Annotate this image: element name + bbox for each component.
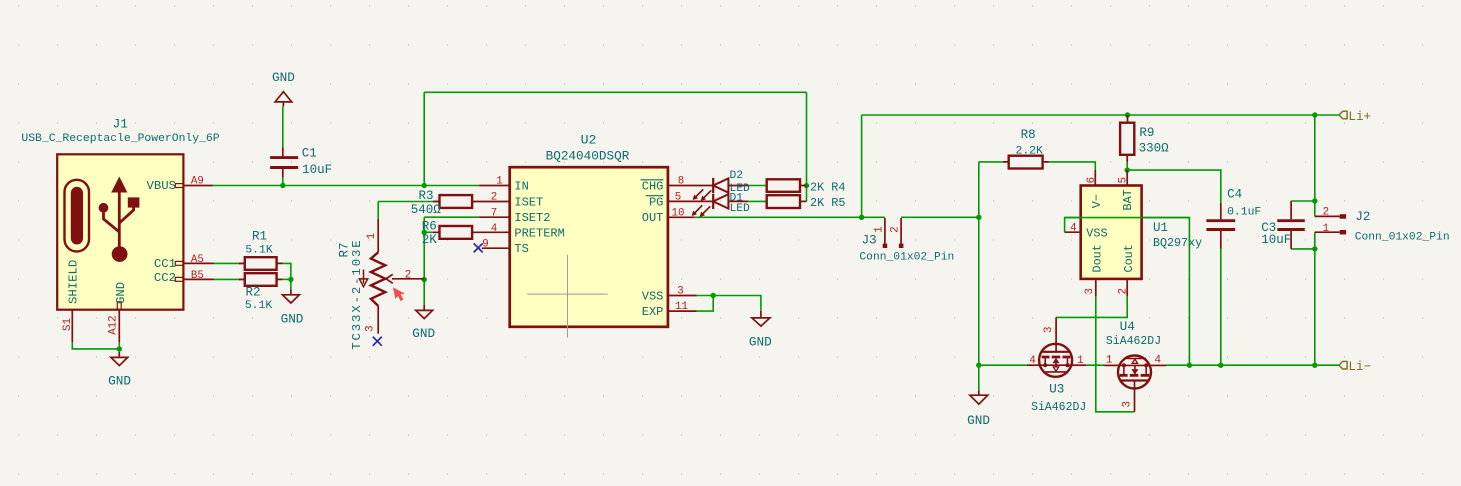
- connector J2 Conn_01x02_Pin: [1315, 207, 1450, 244]
- wire C1 upper branch to GND: [282, 107, 284, 148]
- svg-text:J1: J1: [113, 117, 128, 132]
- svg-text:CC1: CC1: [154, 257, 176, 271]
- resistor R9 330ohm: [1120, 115, 1169, 162]
- svg-text:1: 1: [496, 176, 502, 188]
- potentiometer R7 TC33X-2-103E: [337, 219, 424, 350]
- svg-text:GND: GND: [281, 311, 304, 326]
- junction R9 bottom/BAT: [1125, 167, 1130, 172]
- svg-text:BQ297xy: BQ297xy: [1153, 236, 1202, 250]
- capacitor C4 0.1uF: [1206, 188, 1261, 249]
- junction R2 right: [288, 277, 293, 282]
- svg-text:CHG: CHG: [642, 179, 664, 193]
- wire D2 anode to R4: [748, 185, 766, 187]
- capacitor C1 10uF: [270, 146, 332, 177]
- svg-text:LED: LED: [730, 203, 751, 215]
- svg-text:1: 1: [1077, 355, 1083, 367]
- junction C1/VBUS: [280, 183, 285, 188]
- svg-text:BAT: BAT: [1121, 189, 1135, 210]
- transistor U4 SiA462DJ: [1104, 319, 1166, 412]
- svg-text:9: 9: [482, 238, 488, 250]
- svg-text:5: 5: [675, 192, 681, 204]
- wire R1 right bend: [283, 263, 291, 279]
- svg-text:10: 10: [672, 207, 685, 219]
- svg-text:3: 3: [1084, 288, 1096, 294]
- ground below Li- rail: [967, 391, 990, 429]
- wire C4 bottom to Li- rail: [1220, 249, 1222, 366]
- svg-text:11: 11: [675, 301, 688, 313]
- svg-text:U4: U4: [1120, 319, 1135, 334]
- svg-text:Cout: Cout: [1122, 244, 1136, 272]
- svg-text:R2: R2: [245, 286, 260, 300]
- svg-text:U1: U1: [1153, 221, 1168, 235]
- svg-text:1: 1: [366, 233, 378, 239]
- junction riser/VBUS: [422, 183, 427, 188]
- svg-text:PRETERM: PRETERM: [514, 227, 564, 241]
- junction C3 top: [1312, 198, 1317, 203]
- svg-text:PG: PG: [649, 195, 663, 209]
- svg-text:540Ω: 540Ω: [411, 203, 442, 217]
- svg-text:3: 3: [364, 325, 376, 331]
- wire R7 pin1 to R3 left: [378, 201, 439, 203]
- wire U2.OUT run to J3 pin1: [694, 216, 885, 218]
- resistor R8 2.2K: [1003, 128, 1049, 168]
- svg-text:IN: IN: [514, 179, 528, 193]
- svg-text:2: 2: [491, 192, 497, 204]
- svg-text:5.1K: 5.1K: [245, 300, 273, 312]
- svg-text:ISET2: ISET2: [514, 211, 550, 225]
- svg-text:VBUS: VBUS: [146, 179, 176, 193]
- svg-text:GND: GND: [108, 373, 131, 388]
- resistor R3 540ohm: [411, 189, 510, 217]
- ground below U2 VSS: [749, 311, 772, 350]
- svg-text:2: 2: [890, 226, 902, 232]
- wire Cout to U3 gate: [1056, 296, 1127, 317]
- wire R6 left stub: [424, 231, 439, 233]
- svg-text:Li−: Li−: [1348, 360, 1371, 374]
- svg-text:A5: A5: [191, 254, 204, 266]
- svg-text:SiA462DJ: SiA462DJ: [1106, 335, 1161, 348]
- svg-text:3: 3: [677, 285, 683, 297]
- node Li- hierarchical label: [1339, 360, 1371, 374]
- wire J2 riser upper: [1314, 115, 1316, 216]
- wire Li- rail right: [1166, 364, 1339, 366]
- wire C3 top link: [1291, 200, 1315, 202]
- wire ISET2 to U2: [424, 216, 479, 218]
- svg-text:OUT: OUT: [642, 211, 664, 225]
- svg-text:GND: GND: [412, 326, 435, 341]
- wire CC1 to R1: [214, 262, 245, 264]
- wire Li+ riser: [861, 115, 863, 217]
- svg-text:R9: R9: [1139, 126, 1154, 140]
- svg-text:2K R4: 2K R4: [810, 181, 845, 195]
- svg-text:7: 7: [491, 207, 497, 219]
- svg-text:A9: A9: [191, 176, 204, 188]
- wire BAT to C4 top: [1127, 170, 1221, 203]
- wire R8 right to U1 V-: [1049, 162, 1095, 170]
- wire R8 left vertical to GND: [978, 162, 980, 391]
- svg-text:TC33X-2-103E: TC33X-2-103E: [350, 238, 364, 349]
- wire R2 gnd drop: [290, 279, 292, 289]
- svg-text:10uF: 10uF: [302, 163, 332, 177]
- junction VSS/rail: [1187, 363, 1192, 368]
- svg-text:Conn_01x02_Pin: Conn_01x02_Pin: [1355, 232, 1450, 244]
- wire CC2 to R2: [214, 278, 245, 280]
- wire S1 bottom: [72, 342, 119, 349]
- op-amp U2 BQ24040DSQR charger IC: [479, 133, 713, 338]
- svg-text:2: 2: [1117, 288, 1129, 294]
- svg-text:Dout: Dout: [1091, 244, 1105, 272]
- junction C3 bottom: [1312, 246, 1317, 251]
- svg-text:10uF: 10uF: [1261, 233, 1291, 247]
- wire R9 bottom to BAT junction: [1126, 162, 1128, 170]
- svg-text:VSS: VSS: [1086, 227, 1107, 241]
- wire VBUS riser to top loop: [423, 92, 425, 185]
- LED D1: [692, 192, 750, 217]
- svg-text:2: 2: [405, 270, 411, 282]
- svg-text:5: 5: [1117, 177, 1129, 183]
- svg-text:6: 6: [1086, 177, 1098, 183]
- wire D1 anode to R5: [748, 200, 766, 202]
- svg-text:1: 1: [1323, 223, 1329, 235]
- svg-text:R3: R3: [419, 189, 434, 203]
- wire loop drop to R4/R5: [806, 92, 808, 201]
- svg-text:4: 4: [1070, 222, 1076, 234]
- svg-text:C1: C1: [302, 146, 317, 160]
- wire U2 EXP link: [697, 296, 714, 312]
- junction rail/GND: [976, 363, 981, 368]
- transistor U3 SiA462DJ: [1027, 317, 1086, 414]
- svg-text:Li+: Li+: [1348, 110, 1371, 124]
- junction R7 wiper: [422, 277, 427, 282]
- svg-text:3: 3: [1043, 327, 1055, 333]
- wire J2 riser lower: [1314, 232, 1316, 365]
- capacitor C3 10uF: [1261, 201, 1305, 249]
- junction R9 top: [1125, 112, 1130, 117]
- svg-text:3: 3: [1121, 401, 1133, 407]
- wire R7 gnd drop: [423, 280, 425, 305]
- svg-text:R8: R8: [1021, 128, 1036, 142]
- resistor R6 2K: [422, 219, 510, 247]
- svg-text:C4: C4: [1227, 188, 1242, 202]
- svg-text:V−: V−: [1090, 194, 1104, 208]
- resistor R1 5.1K: [239, 229, 283, 270]
- svg-text:Conn_01x02_Pin: Conn_01x02_Pin: [859, 252, 954, 264]
- svg-text:2K: 2K: [422, 233, 438, 247]
- wire VBUS main A9 to U2.IN: [213, 185, 479, 187]
- ground below USB A12: [108, 352, 131, 389]
- ground below R2: [281, 289, 304, 326]
- wire J3 pin2 to R8 net: [901, 216, 979, 218]
- no-connect X on U2 TS: [474, 243, 483, 252]
- svg-text:4: 4: [1154, 355, 1160, 367]
- wire top loop horizontal: [424, 91, 806, 93]
- LED D2: [693, 170, 750, 201]
- wire C1 lower branch to VBUS: [282, 178, 284, 186]
- wire R8 left horizontal: [979, 161, 1003, 163]
- svg-text:SHIELD: SHIELD: [67, 260, 81, 304]
- svg-text:GND: GND: [114, 282, 128, 304]
- svg-text:CC2: CC2: [154, 271, 176, 285]
- resistor R4 2K: [767, 179, 846, 194]
- wire Dout to U4 gate: [1096, 296, 1135, 412]
- wire U1 VSS net: [1065, 218, 1190, 366]
- ground above C1 (flipped): [272, 70, 295, 107]
- svg-text:A12: A12: [108, 315, 120, 334]
- wire U2 VSS to gnd: [697, 296, 761, 311]
- junction OUT/Li+ riser: [859, 215, 864, 220]
- wire A12 gnd: [118, 342, 120, 352]
- svg-text:S1: S1: [62, 318, 74, 331]
- junction USB gnd: [117, 346, 122, 351]
- svg-text:ISET: ISET: [514, 195, 543, 209]
- svg-text:2.2K: 2.2K: [1016, 146, 1044, 158]
- svg-text:0.1uF: 0.1uF: [1227, 206, 1261, 218]
- svg-text:GND: GND: [272, 70, 295, 85]
- svg-text:U2: U2: [581, 133, 597, 148]
- svg-text:5.1K: 5.1K: [245, 244, 273, 256]
- wire vertical ISET2/R6/wiper: [423, 217, 425, 279]
- resistor R5 2K: [767, 195, 846, 210]
- wire Li+ rail: [862, 114, 1339, 116]
- svg-text:R6: R6: [422, 219, 437, 233]
- svg-text:TS: TS: [514, 242, 528, 256]
- svg-text:J2: J2: [1355, 210, 1370, 224]
- svg-text:2: 2: [1323, 207, 1329, 219]
- cursor arrow: [393, 287, 405, 301]
- wire R2 right: [283, 278, 291, 280]
- svg-text:8: 8: [678, 176, 684, 188]
- svg-text:4: 4: [491, 223, 497, 235]
- svg-text:EXP: EXP: [642, 305, 664, 319]
- svg-text:VSS: VSS: [642, 290, 664, 304]
- svg-text:2K R5: 2K R5: [810, 196, 845, 210]
- junction R4 right: [804, 183, 809, 188]
- svg-text:B5: B5: [191, 270, 204, 282]
- svg-text:GND: GND: [967, 413, 990, 428]
- junction Li+/J2 riser: [1312, 112, 1317, 117]
- node Li+ hierarchical label: [1339, 110, 1371, 124]
- ground below R7 wiper: [412, 305, 435, 341]
- svg-text:U3: U3: [1049, 381, 1064, 396]
- svg-text:USB_C_Receptacle_PowerOnly_6P: USB_C_Receptacle_PowerOnly_6P: [21, 133, 219, 145]
- resistor R2 5.1K: [239, 273, 283, 312]
- junction J3.2/R8: [976, 215, 981, 220]
- svg-text:BQ24040DSQR: BQ24040DSQR: [546, 149, 630, 164]
- svg-text:J3: J3: [862, 234, 877, 248]
- svg-text:1: 1: [1106, 355, 1112, 367]
- svg-text:330Ω: 330Ω: [1139, 142, 1170, 156]
- connector J1 USB_C_Receptacle_PowerOnly_6P: [21, 117, 219, 342]
- svg-text:SiA462DJ: SiA462DJ: [1031, 401, 1086, 414]
- svg-text:1: 1: [873, 226, 885, 232]
- wire C3 bottom link: [1291, 248, 1315, 250]
- junction C4/rail: [1218, 363, 1223, 368]
- wire R7 pin1 riser: [377, 202, 379, 220]
- junction R6 left: [422, 230, 427, 235]
- no-connect X on R7 pin3: [373, 337, 382, 346]
- junction VSS/EXP: [711, 293, 716, 298]
- svg-text:4: 4: [1029, 355, 1035, 367]
- IC U1 BQ297xy battery protector: [1065, 170, 1203, 296]
- svg-text:GND: GND: [749, 334, 772, 349]
- junction J2/rail: [1312, 363, 1317, 368]
- wire U3 to U4 link: [1086, 364, 1104, 366]
- wire Li- rail left: [979, 364, 1027, 366]
- svg-text:R1: R1: [252, 229, 267, 243]
- connector J3 Conn_01x02_Pin: [859, 218, 954, 264]
- svg-text:D2: D2: [730, 170, 744, 182]
